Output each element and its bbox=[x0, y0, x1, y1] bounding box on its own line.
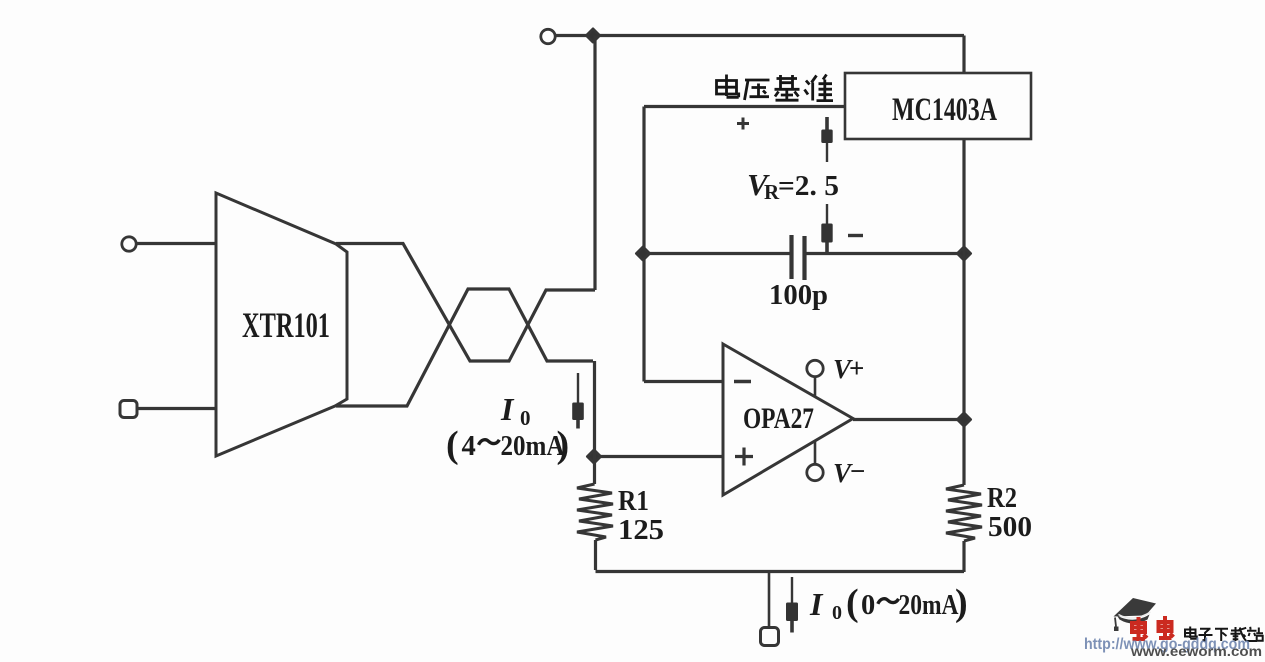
svg-text:20mA: 20mA bbox=[899, 590, 959, 621]
polarity plus sign of reference bbox=[737, 118, 749, 130]
resistor R2 zigzag bbox=[946, 485, 982, 541]
U2 non-inverting input plus symbol bbox=[735, 448, 753, 466]
junction top rail bbox=[587, 29, 600, 42]
svg-text:(: ( bbox=[846, 582, 859, 624]
watermark cap tassel knob bbox=[1114, 627, 1119, 632]
transmitter U3 XTR101 body bbox=[216, 193, 347, 456]
wire main loop vertical upper bbox=[593, 36, 596, 291]
svg-text:=2. 5: =2. 5 bbox=[778, 170, 839, 202]
terminal J3 input top circle bbox=[122, 237, 136, 251]
junction reference loop left bbox=[637, 247, 650, 260]
arrow I0 output current bbox=[786, 577, 798, 633]
label VR=2.5 bbox=[747, 167, 839, 204]
arrow I0 loop current bbox=[572, 373, 584, 429]
label loop range (4~20mA) bbox=[446, 424, 569, 466]
resistor R1 zigzag bbox=[577, 484, 613, 540]
terminal J4 input bottom square bbox=[120, 401, 137, 418]
svg-text:): ) bbox=[955, 582, 968, 624]
label V+ bbox=[833, 353, 864, 384]
capacitor C1 plates bbox=[792, 235, 805, 280]
wire output terminal stub bbox=[768, 572, 771, 629]
svg-text:500: 500 bbox=[988, 512, 1032, 543]
svg-text:R2: R2 bbox=[987, 482, 1017, 514]
tilde of (0~20mA) bbox=[878, 599, 899, 604]
watermark red char 虫 #2 bbox=[1159, 616, 1174, 638]
准 bbox=[805, 75, 834, 101]
电 bbox=[717, 75, 739, 98]
junction right rail at capacitor bbox=[958, 247, 971, 260]
label output range (0~20mA) bbox=[846, 582, 968, 624]
pin V- terminal circle bbox=[807, 464, 823, 480]
wire main loop vertical lower bbox=[593, 361, 596, 457]
wire bottom rail bbox=[596, 570, 965, 573]
wire inverting input bbox=[644, 380, 723, 383]
svg-text:MC1403A: MC1403A bbox=[892, 92, 997, 128]
wire R1 bottom bbox=[594, 540, 597, 570]
wire right rail mid segment bbox=[962, 139, 965, 485]
terminal J1 top-left loop supply bbox=[541, 29, 555, 43]
svg-text:20mA: 20mA bbox=[501, 431, 565, 462]
wire R2 bottom bbox=[962, 541, 965, 572]
wire U1 left pin to reference loop bbox=[644, 105, 845, 108]
wire R1 top bbox=[593, 457, 596, 485]
wire input bottom bbox=[137, 407, 216, 410]
arrow reference polarity down bbox=[821, 204, 832, 255]
svg-text:): ) bbox=[557, 424, 570, 466]
svg-text:0: 0 bbox=[861, 590, 875, 621]
label V- bbox=[833, 456, 865, 488]
watermark text 电子下载站 bbox=[1185, 627, 1263, 642]
pin V+ terminal circle bbox=[807, 360, 823, 376]
svg-text:100p: 100p bbox=[769, 280, 828, 311]
watermark cap white piping bbox=[1119, 612, 1151, 618]
wire U2 output bbox=[853, 418, 964, 421]
arrow reference polarity up bbox=[821, 117, 832, 162]
svg-text:+: + bbox=[849, 353, 864, 383]
svg-text:XTR101: XTR101 bbox=[242, 305, 330, 345]
label I0 output bbox=[809, 586, 842, 624]
svg-text:0: 0 bbox=[520, 406, 531, 430]
label voltage reference 电压基准 bbox=[717, 75, 834, 101]
watermark cap band bbox=[1117, 615, 1150, 624]
svg-text:R1: R1 bbox=[618, 485, 649, 517]
wire twisted pair conductor A bbox=[336, 244, 595, 362]
IC U1 MC1403A box bbox=[845, 73, 1031, 139]
wire non-inverting input bbox=[594, 455, 723, 458]
wire capacitor right segment bbox=[806, 252, 964, 255]
wire reference loop left vertical bbox=[642, 107, 645, 382]
wire input top bbox=[137, 242, 216, 245]
svg-text:125: 125 bbox=[618, 514, 664, 546]
pin V- stub bbox=[814, 441, 817, 464]
polarity minus sign of reference bbox=[848, 234, 863, 237]
U2 inverting input minus symbol bbox=[734, 380, 751, 384]
junction output node bbox=[958, 413, 971, 426]
svg-text:(: ( bbox=[446, 424, 459, 466]
svg-text:4: 4 bbox=[462, 431, 476, 462]
watermark red char 虫 #1 bbox=[1132, 617, 1147, 639]
基 bbox=[775, 75, 800, 100]
label I0 loop bbox=[500, 391, 531, 430]
wire capacitor left segment bbox=[644, 252, 790, 255]
svg-text:OPA27: OPA27 bbox=[743, 402, 814, 435]
watermark cap tassel bbox=[1115, 618, 1116, 627]
op-amp U2 OPA27 triangle bbox=[723, 344, 853, 495]
svg-text:I: I bbox=[500, 391, 515, 427]
wire top rail bbox=[556, 34, 964, 37]
svg-text:0: 0 bbox=[832, 602, 842, 624]
压 bbox=[745, 80, 770, 100]
svg-text:−: − bbox=[850, 456, 865, 486]
junction non-inverting node bbox=[588, 450, 601, 463]
tilde of (4~20mA) bbox=[479, 440, 500, 445]
watermark graduation cap board bbox=[1114, 598, 1157, 617]
svg-text:www.eeworm.com: www.eeworm.com bbox=[1130, 643, 1262, 657]
pin V+ stub bbox=[814, 377, 817, 396]
wire twisted pair conductor B bbox=[336, 289, 593, 406]
terminal J2 bottom output square bbox=[761, 628, 779, 646]
svg-text:I: I bbox=[809, 586, 824, 622]
wire right rail upper segment into U1 bbox=[962, 36, 965, 74]
